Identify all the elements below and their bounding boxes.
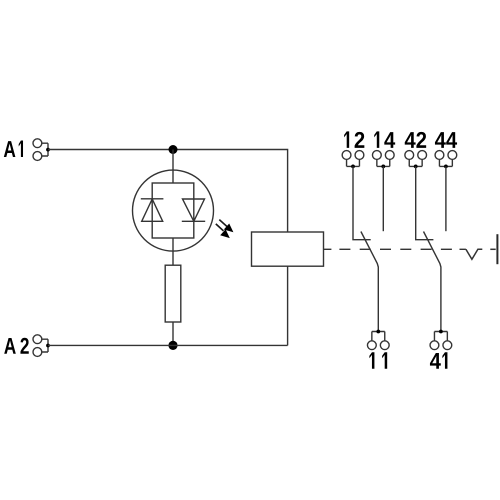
label 11 — [369, 352, 387, 368]
diode V1 (suppressor, pointing up) — [141, 199, 164, 222]
wire contact 44 (NO) — [445, 166, 447, 231]
terminal A2 clamp — [33, 335, 50, 357]
label A1 — [4, 141, 23, 157]
wire A1 rail to coil top — [48, 150, 288, 233]
label 14 — [374, 131, 395, 147]
wire resistor to A2 rail — [172, 322, 174, 345]
wire contact 12 (NC) with seat — [353, 166, 371, 239]
switch blade contact 11-12 — [361, 232, 378, 332]
LED light arrow 2 — [216, 224, 230, 238]
armature end bar — [496, 234, 498, 264]
label 41 — [430, 352, 447, 368]
resistor R — [165, 265, 181, 322]
indicator circle (LED + suppressor diode block) — [133, 170, 214, 251]
wire contact 42 (NC) with seat — [416, 166, 434, 239]
terminal 11 clamp — [367, 330, 389, 350]
label 12 — [344, 131, 364, 147]
switch blade contact 41-42 — [424, 232, 441, 332]
terminal A1 clamp — [33, 139, 50, 161]
dash after notch — [490, 248, 495, 250]
relay coil K1 — [252, 232, 324, 266]
mechanical link (dashed) — [324, 248, 466, 250]
wire contact 14 (NO) — [382, 166, 384, 231]
label A2 — [4, 338, 29, 354]
terminal 44 clamp — [435, 151, 457, 169]
wire coil bottom — [287, 266, 289, 345]
label 44 — [435, 132, 457, 148]
terminal 12 clamp — [342, 151, 364, 169]
wire indicator branch down — [172, 150, 174, 184]
terminal 41 clamp — [430, 330, 452, 350]
label 42 — [405, 132, 426, 148]
actuator notch symbol — [466, 249, 482, 259]
node junction dot A2/resistor — [168, 341, 177, 350]
terminal 14 clamp — [372, 151, 394, 169]
wire circle bottom to resistor — [172, 238, 174, 265]
LED light arrow 1 — [219, 220, 233, 233]
wire A2 rail — [48, 344, 288, 346]
LED (pointing down) — [182, 199, 205, 221]
node junction dot A1/indicator branch — [169, 145, 178, 154]
inner rectangle loop — [152, 183, 194, 238]
terminal 42 clamp — [405, 151, 427, 169]
